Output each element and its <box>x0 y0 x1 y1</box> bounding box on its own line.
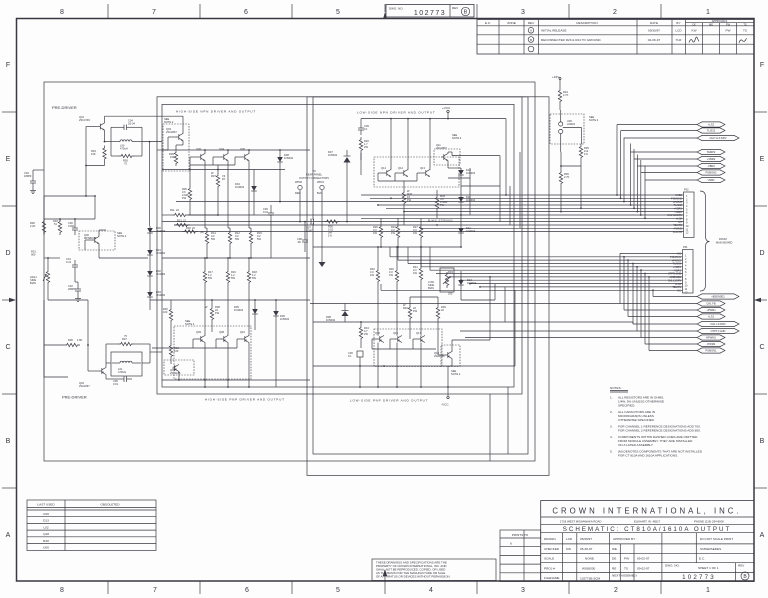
wire R31 col <box>420 247 422 266</box>
transistor Q00 dashed box <box>79 231 115 250</box>
ls npn driver dashed box <box>374 157 459 187</box>
svg-text:100: 100 <box>174 349 179 353</box>
LS-NPN SECTION <box>295 118 507 267</box>
emitter resistor R16 <box>226 269 229 285</box>
zone tick left E/F <box>2 111 16 113</box>
svg-text:TO: TO <box>312 169 316 173</box>
diode D05 <box>252 307 258 317</box>
svg-text:1N5462: 1N5462 <box>326 318 336 322</box>
svg-text:7: 7 <box>152 9 156 16</box>
svg-text:1.: 1. <box>610 396 613 400</box>
wire P02 pin3 <box>176 201 684 203</box>
wire lm334 drop2 <box>580 166 582 208</box>
zone tick top 1/2 <box>660 4 662 18</box>
wire P01 pin8 <box>450 276 683 278</box>
svg-text:B: B <box>464 10 468 16</box>
wire P01 pin6 <box>430 269 683 271</box>
svg-text:REAR PANEL: REAR PANEL <box>306 173 323 177</box>
svg-text:2.7K: 2.7K <box>563 93 569 97</box>
wire loop in <box>105 141 112 143</box>
svg-text:Q09: Q09 <box>196 330 201 334</box>
disclaimer box <box>372 559 496 581</box>
svg-text:TS: TS <box>743 22 747 26</box>
svg-text:RECONNECTED R23 & R24 TO GROUN: RECONNECTED R23 & R24 TO GROUND. <box>541 38 602 42</box>
diode D08 <box>277 155 283 165</box>
svg-text:09-02-97: 09-02-97 <box>637 557 650 561</box>
svg-text:-VCC: -VCC <box>441 403 449 407</box>
wire R30 col <box>396 247 398 268</box>
resistor R20 <box>359 137 362 153</box>
grid col lines <box>561 533 563 582</box>
svg-text:NOTE 2: NOTE 2 <box>164 120 174 124</box>
transistor Q11 dashed outline <box>434 149 460 165</box>
svg-text:D: D <box>759 250 764 257</box>
wire junction <box>560 165 562 167</box>
emitter resistor R17 <box>203 269 206 285</box>
svg-text:R40: R40 <box>403 306 408 310</box>
flag CH1 LS DRV <box>697 321 739 326</box>
svg-text:6: 6 <box>510 542 512 546</box>
svg-text:5: 5 <box>336 9 340 16</box>
svg-text:FILENAME: FILENAME <box>544 576 559 580</box>
wire q18c drop <box>489 277 491 340</box>
wire P02 pin11 <box>421 227 684 229</box>
emitter resistor R14 <box>205 230 208 246</box>
emitter resistor R32 <box>376 268 379 284</box>
svg-text:+LS2: +LS2 <box>708 123 715 127</box>
svg-text:0.1: 0.1 <box>364 127 368 131</box>
svg-text:TS: TS <box>743 29 747 33</box>
wire lspnp drops <box>380 284 382 290</box>
emitter resistor R12 <box>228 230 231 246</box>
diode D11 <box>458 195 464 205</box>
svg-text:PROJ #: PROJ # <box>544 567 555 571</box>
svg-text:W038200: W038200 <box>582 567 596 571</box>
svg-text:PW: PW <box>726 22 731 26</box>
wire lfan v6 <box>636 267 638 331</box>
flag lead 5 <box>634 158 697 160</box>
wire P01 pin5 <box>421 266 683 268</box>
svg-text:8: 8 <box>60 9 64 16</box>
svg-text:5W: 5W <box>257 237 261 241</box>
svg-text:APPROVED BY :: APPROVED BY : <box>613 537 637 541</box>
svg-text:0.41: 0.41 <box>66 260 72 264</box>
flag lead B3 <box>624 309 697 311</box>
svg-text:250: 250 <box>448 292 453 296</box>
wire R01 top <box>47 258 49 269</box>
wire Q01 emitter <box>104 130 106 142</box>
svg-text:2.: 2. <box>610 410 613 414</box>
brace from main board <box>700 191 710 291</box>
svg-text:-PWM1: -PWM1 <box>707 342 716 346</box>
wire Q01 collector <box>104 116 106 123</box>
svg-text:NOTE 4: NOTE 4 <box>589 118 599 122</box>
base bus hs pnp <box>193 338 199 340</box>
svg-text:D: D <box>5 250 10 257</box>
resistor R06 <box>64 343 80 346</box>
wire base drop low <box>85 166 87 197</box>
svg-text:470uH: 470uH <box>120 147 128 151</box>
svg-text:1N4004: 1N4004 <box>234 308 244 312</box>
transistor Q07 dashed outline <box>164 360 194 375</box>
svg-text:1E-04: 1E-04 <box>128 122 135 126</box>
npn driver outer box <box>157 97 522 394</box>
junction dots on bus <box>460 214 462 216</box>
svg-text:FF: FF <box>222 177 226 181</box>
centre arrow right <box>760 299 767 301</box>
driver dashed box <box>163 124 189 171</box>
resistor R04 <box>103 146 106 162</box>
svg-text:OF APPARATUS OR DEVICES WITHOU: OF APPARATUS OR DEVICES WITHOUT PERMISSI… <box>376 575 451 579</box>
svg-text:HIGH-SIDE PNP DRIVER AND OUTPU: HIGH-SIDE PNP DRIVER AND OUTPUT <box>205 398 285 402</box>
svg-text:Q15: Q15 <box>393 331 398 335</box>
wire R24 <box>397 218 399 224</box>
svg-text:1N5402: 1N5402 <box>328 153 338 157</box>
wire Q11 collector <box>447 152 449 154</box>
svg-text:WE: WE <box>612 547 617 551</box>
svg-text:KW: KW <box>692 29 697 33</box>
wire Q06 collector <box>204 150 206 154</box>
svg-text:E: E <box>760 156 765 163</box>
svg-text:LAST USED: LAST USED <box>37 503 55 507</box>
svg-text:A: A <box>760 532 765 539</box>
diode D01 <box>147 248 153 258</box>
inductor L00 <box>120 140 132 142</box>
svg-text:1.8K: 1.8K <box>77 338 83 342</box>
svg-text:05/30/97: 05/30/97 <box>580 537 592 541</box>
svg-text:Q16: Q16 <box>375 331 380 335</box>
LM334 COLUMN <box>550 75 599 212</box>
svg-text:BIAS: BIAS <box>428 286 434 290</box>
wire R11 left <box>162 214 172 216</box>
svg-text:180PF: 180PF <box>24 174 32 178</box>
rev B signature TS <box>739 38 747 43</box>
wire P02 pin7 <box>188 214 684 216</box>
hs npn top rail <box>162 149 310 151</box>
wire R08 <box>211 300 213 306</box>
wire R07/L01 right <box>134 343 150 345</box>
last-used header row <box>27 507 156 509</box>
emitter resistor R27 <box>419 224 422 240</box>
wire lfan v1 <box>652 290 654 296</box>
svg-text:102773B.SCM: 102773B.SCM <box>580 577 601 581</box>
svg-text:ON A LATER ASSEMBLY.: ON A LATER ASSEMBLY. <box>618 443 654 447</box>
transistor Q10 <box>242 336 249 343</box>
flag TL/S32 <box>697 128 725 133</box>
resistor R02 <box>182 230 198 233</box>
zone tick left D/E <box>2 205 16 207</box>
svg-text:DO NOT SCALE PRINT: DO NOT SCALE PRINT <box>700 537 733 541</box>
svg-text:WP01: WP01 <box>317 180 325 184</box>
wire C09 top <box>360 119 362 123</box>
wire Q18 emitter <box>451 359 453 367</box>
svg-text:PHONE (219) 294-8000: PHONE (219) 294-8000 <box>694 520 724 524</box>
wire lfan v9 <box>648 277 650 351</box>
svg-text:LCD: LCD <box>566 537 573 541</box>
wire mid rail <box>162 169 285 171</box>
wire box bottom drops <box>507 387 509 454</box>
svg-text:CHECKED: CHECKED <box>544 547 560 551</box>
resistor R03 <box>58 219 61 235</box>
low side bias box <box>440 268 454 292</box>
emitter bus <box>162 257 310 259</box>
wire Q16 collector <box>377 343 379 388</box>
flag -PWM1 <box>697 341 725 346</box>
wire lfan v5 <box>632 264 634 325</box>
transistor Q07 <box>172 365 179 372</box>
resistor R19 <box>169 343 172 359</box>
svg-text:OTPT1 GND: OTPT1 GND <box>711 329 726 333</box>
svg-text:NEXT ASSEMBLY: NEXT ASSEMBLY <box>612 574 637 578</box>
svg-text:2SC4793: 2SC4793 <box>79 118 90 122</box>
svg-text:PRE-DRIVER: PRE-DRIVER <box>62 395 87 400</box>
transistor Q06 <box>198 154 205 161</box>
svg-text:+LS1: +LS1 <box>708 315 715 319</box>
zone tick right E/F <box>754 111 767 113</box>
svg-text:DE: DE <box>612 557 616 561</box>
wire C03 top <box>32 170 34 176</box>
flag lead 6 <box>637 165 697 167</box>
svg-text:MAIN BOARD: MAIN BOARD <box>716 241 733 245</box>
wire lspnp right verticals <box>494 284 496 300</box>
prints-to table <box>500 530 541 582</box>
capacitor C03 <box>30 176 36 188</box>
svg-text:REV: REV <box>452 6 458 10</box>
wire Q02 base <box>88 370 100 372</box>
flag lead B5 <box>633 323 697 325</box>
wire R19 <box>170 342 172 345</box>
transistor Q11 <box>441 154 448 161</box>
wire P02 pin10 <box>174 224 684 226</box>
wire D09 <box>344 304 346 311</box>
flag lead 7 <box>641 172 697 174</box>
wire D13 <box>460 271 462 278</box>
svg-text:5W: 5W <box>231 276 235 280</box>
transistor Q04 <box>221 154 228 161</box>
rev table column lines <box>498 20 500 55</box>
svg-text:2SA1837: 2SA1837 <box>79 384 90 388</box>
svg-text:REV: REV <box>738 564 745 568</box>
wire R34b <box>360 322 362 325</box>
rev table outline <box>477 20 754 55</box>
zone tick top 5/6 <box>291 4 293 18</box>
wire P01 pin1 <box>620 252 683 254</box>
wire +15V <box>559 79 561 88</box>
zone tick top 3/4 <box>476 4 478 18</box>
wire Q13 collector <box>429 119 431 170</box>
ls pnp driver dashed box <box>374 329 442 367</box>
svg-text:FROM: FROM <box>719 237 727 241</box>
inductor L01 <box>120 361 132 363</box>
wire left bus y196 <box>44 195 95 197</box>
svg-text:Q12: Q12 <box>398 166 403 170</box>
flag lead B9 <box>649 350 697 352</box>
svg-text:2.7K: 2.7K <box>564 175 570 179</box>
svg-text:102773: 102773 <box>414 10 446 17</box>
wire R04 bottom <box>104 162 106 166</box>
svg-text:100: 100 <box>163 310 168 314</box>
svg-text:NOTE 4: NOTE 4 <box>185 322 195 326</box>
base bus ls pnp <box>372 338 378 340</box>
svg-text:280PF: 280PF <box>68 287 76 291</box>
BOTTOM TABLES <box>27 500 754 582</box>
wire D08 <box>279 150 281 155</box>
wire R18 col <box>248 258 250 269</box>
wire D04 <box>253 170 255 185</box>
last-used table box <box>27 500 156 551</box>
hs pnp driver dashed box <box>174 326 251 379</box>
wire P01 pin11 <box>480 286 683 288</box>
wire fan v8 <box>644 166 646 219</box>
+VCC terminal <box>447 110 449 112</box>
diode D07 <box>344 157 351 163</box>
wire P02 pin2 <box>370 197 684 199</box>
wire R06 left <box>44 344 64 346</box>
svg-text:2W: 2W <box>364 332 368 336</box>
svg-text:TEMP2: TEMP2 <box>707 150 716 154</box>
svg-text:1: 1 <box>706 587 710 594</box>
rev C empty row circle <box>528 46 534 52</box>
wire P02 pin12 <box>150 231 684 233</box>
flag PSMON1 <box>697 348 725 353</box>
svg-text:R07: R07 <box>211 174 216 178</box>
transistor Q02 <box>99 368 106 375</box>
wire Q01 top feed <box>105 115 184 117</box>
emitter resistor R30 <box>395 268 398 284</box>
zone tick right B/C <box>754 393 767 395</box>
svg-text:2SC2837: 2SC2837 <box>436 146 447 150</box>
svg-text:09/30/97: 09/30/97 <box>648 29 660 33</box>
svg-text:P01: P01 <box>683 245 688 249</box>
wire D07 <box>346 150 348 156</box>
transistor Q05 <box>242 154 249 161</box>
svg-text:0.01: 0.01 <box>263 210 269 214</box>
svg-text:BY: BY <box>676 21 680 25</box>
svg-text:6: 6 <box>245 587 249 594</box>
transistor Q15 <box>395 336 402 343</box>
PRE-DRIVER SECTION <box>24 115 183 388</box>
svg-text:4: 4 <box>429 587 433 594</box>
rev table row lines <box>477 25 754 27</box>
flag lead B2 <box>620 303 697 305</box>
resistor R10 <box>169 307 172 323</box>
base bus Q06/Q04/Q05 <box>190 156 199 158</box>
capacitor C07 <box>310 219 312 225</box>
svg-text:PSMON2: PSMON2 <box>706 171 718 175</box>
diode D04 <box>251 184 257 194</box>
svg-text:KW: KW <box>566 547 571 551</box>
wire Q05 collector <box>248 150 250 154</box>
svg-text:Q06: Q06 <box>196 147 201 151</box>
svg-text:SPECIFIED.: SPECIFIED. <box>618 404 635 408</box>
wire Q04 emitter <box>227 161 229 229</box>
diode D13 <box>458 278 464 288</box>
svg-text:+BSENSE1: +BSENSE1 <box>711 295 725 299</box>
prints-to header <box>500 537 541 539</box>
flag lead 1 <box>617 124 697 126</box>
rev circle <box>741 572 749 580</box>
wire R34c bottom <box>559 104 561 110</box>
svg-text:CH2 VLS DRV: CH2 VLS DRV <box>710 136 727 140</box>
svg-text:5.: 5. <box>610 450 613 454</box>
rev B row <box>528 37 534 43</box>
zone tick bottom 1/2 <box>660 581 662 594</box>
resistor R34c <box>558 88 561 104</box>
svg-text:2SA1186: 2SA1186 <box>170 371 181 375</box>
+VCC rail <box>447 113 449 119</box>
wire Q15 collector <box>396 343 398 388</box>
svg-text:SHEET 1 OF 1: SHEET 1 OF 1 <box>698 566 719 570</box>
svg-text:3.: 3. <box>610 425 613 429</box>
svg-text:R40: R40 <box>43 539 49 543</box>
resistor R06b <box>188 186 191 202</box>
wire pre bottom bus <box>44 376 68 378</box>
svg-text:5W: 5W <box>235 237 239 241</box>
svg-text:ME: ME <box>709 22 713 26</box>
svg-text:NOTES :: NOTES : <box>610 386 623 390</box>
wire R10 <box>170 300 172 307</box>
svg-text:OUTPUT CONNECTORS: OUTPUT CONNECTORS <box>299 176 329 180</box>
transistor Q13 <box>423 170 430 177</box>
resistor R39 <box>436 305 439 321</box>
svg-text:PW: PW <box>624 557 629 561</box>
svg-text:Q18: Q18 <box>43 532 49 536</box>
svg-text:DATE: DATE <box>650 21 658 25</box>
loop right edge <box>141 127 143 156</box>
wire Q10 collector <box>248 343 250 388</box>
svg-text:Q17: Q17 <box>416 331 421 335</box>
wire lfan v8 <box>644 274 646 345</box>
wire long ch1fb <box>310 303 620 305</box>
wire Q03 emitter <box>182 141 184 146</box>
svg-text:5: 5 <box>336 587 340 594</box>
svg-text:Q04: Q04 <box>219 147 224 151</box>
flag USB2 <box>697 177 725 182</box>
wire Q02 emitter <box>105 375 107 380</box>
emitter resistor R15 <box>249 230 252 246</box>
svg-text:BIAS: BIAS <box>30 281 36 285</box>
wire P01 pin7 <box>436 273 683 275</box>
centre arrow left <box>2 299 9 301</box>
svg-text:2: 2 <box>613 9 617 16</box>
svg-text:F: F <box>760 62 764 69</box>
rev circle B <box>461 7 469 15</box>
flag lead 2 <box>621 130 698 132</box>
svg-text:PW: PW <box>726 29 731 33</box>
wire Q11 emitter <box>447 161 449 169</box>
svg-text:0.001: 0.001 <box>68 224 75 228</box>
svg-text:WP00: WP00 <box>295 180 303 184</box>
wire Q05 emitter <box>248 161 250 229</box>
wire ls right horizontals <box>461 185 500 187</box>
svg-text:2SC2837: 2SC2837 <box>166 130 177 134</box>
flag +PWM1 <box>697 307 725 312</box>
wire C10 <box>359 357 361 387</box>
flag lead B7 <box>641 337 697 339</box>
svg-text:Q13: Q13 <box>420 166 425 170</box>
svg-text:5W: 5W <box>211 237 215 241</box>
svg-text:LOW-SIDE NPN DRIVER AND OUTPUT: LOW-SIDE NPN DRIVER AND OUTPUT <box>357 111 435 115</box>
-VCC stub <box>447 387 449 396</box>
svg-text:5W: 5W <box>252 276 256 280</box>
zone tick bottom 7/8 <box>107 581 109 594</box>
flag lead 8 <box>645 179 697 181</box>
wire C06 <box>270 205 272 208</box>
wire R12 bottom <box>229 246 231 258</box>
low-side section outer box <box>307 97 549 476</box>
svg-text:NOTE 4: NOTE 4 <box>451 372 461 376</box>
wire lspnp right horizontals <box>461 299 495 301</box>
